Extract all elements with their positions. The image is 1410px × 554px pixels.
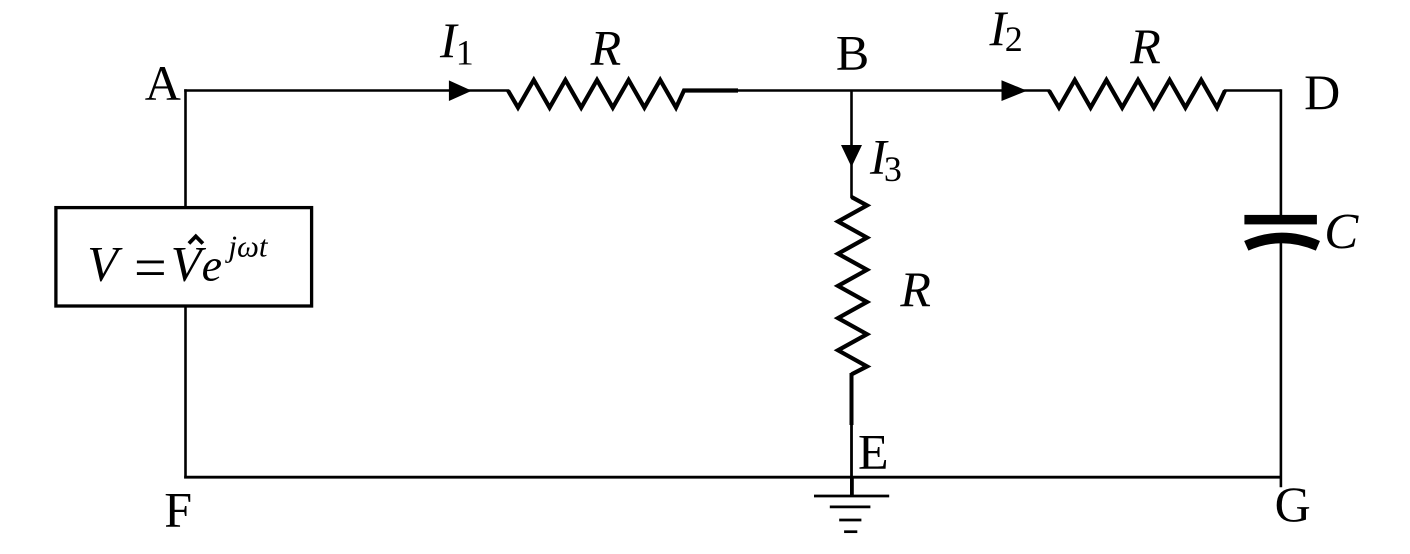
capacitor C top plate: [1244, 215, 1317, 225]
resistor R2: [1049, 80, 1225, 108]
source formula V = V-hat e^jwt: [87, 229, 269, 301]
svg-text:1: 1: [456, 33, 474, 73]
svg-text:3: 3: [884, 149, 902, 189]
voltage source V1 box: [56, 208, 312, 306]
svg-text:B: B: [836, 25, 869, 81]
svg-text:C: C: [1324, 205, 1359, 261]
svg-text:V: V: [87, 235, 123, 291]
resistor R1: [508, 80, 738, 108]
ground bar 3: [839, 519, 861, 522]
wire A to R1: [184, 89, 509, 92]
bottom wire F to G: [184, 476, 1281, 479]
resistor R3 (vertical): [838, 197, 867, 374]
ground stub at E: [850, 477, 854, 497]
ground bar 4: [844, 530, 857, 533]
svg-text:R: R: [590, 19, 622, 75]
arrow I2: [1002, 80, 1028, 101]
wire R1 to B to R2: [737, 89, 1050, 92]
svg-text:D: D: [1304, 64, 1340, 120]
svg-text:G: G: [1275, 476, 1311, 532]
label I1: [439, 12, 474, 73]
wire D down to capacitor: [1280, 89, 1283, 216]
svg-text:e: e: [202, 239, 222, 290]
wire R3 to E: [850, 424, 853, 478]
label I3: [869, 129, 902, 190]
svg-text:E: E: [858, 424, 889, 480]
ground bar 1: [814, 495, 889, 498]
label I2: [989, 0, 1023, 59]
wire source to F: [184, 305, 187, 479]
capacitor C bottom plate (curved): [1246, 238, 1318, 246]
arrow I1: [449, 80, 472, 101]
svg-text:=: =: [134, 235, 167, 300]
wire A down to source: [184, 89, 187, 209]
wire R2 to D: [1224, 89, 1281, 92]
arrow I3: [841, 145, 862, 167]
wire R3 lead: [850, 373, 854, 425]
svg-text:A: A: [145, 55, 181, 111]
svg-text:jωt: jωt: [224, 229, 269, 264]
svg-text:F: F: [164, 482, 192, 538]
svg-text:R: R: [1129, 18, 1161, 74]
ground bar 2: [830, 506, 871, 509]
wire B down: [850, 91, 853, 199]
svg-text:R: R: [899, 261, 931, 317]
svg-text:2: 2: [1005, 19, 1023, 59]
wire capacitor to G: [1280, 241, 1283, 487]
